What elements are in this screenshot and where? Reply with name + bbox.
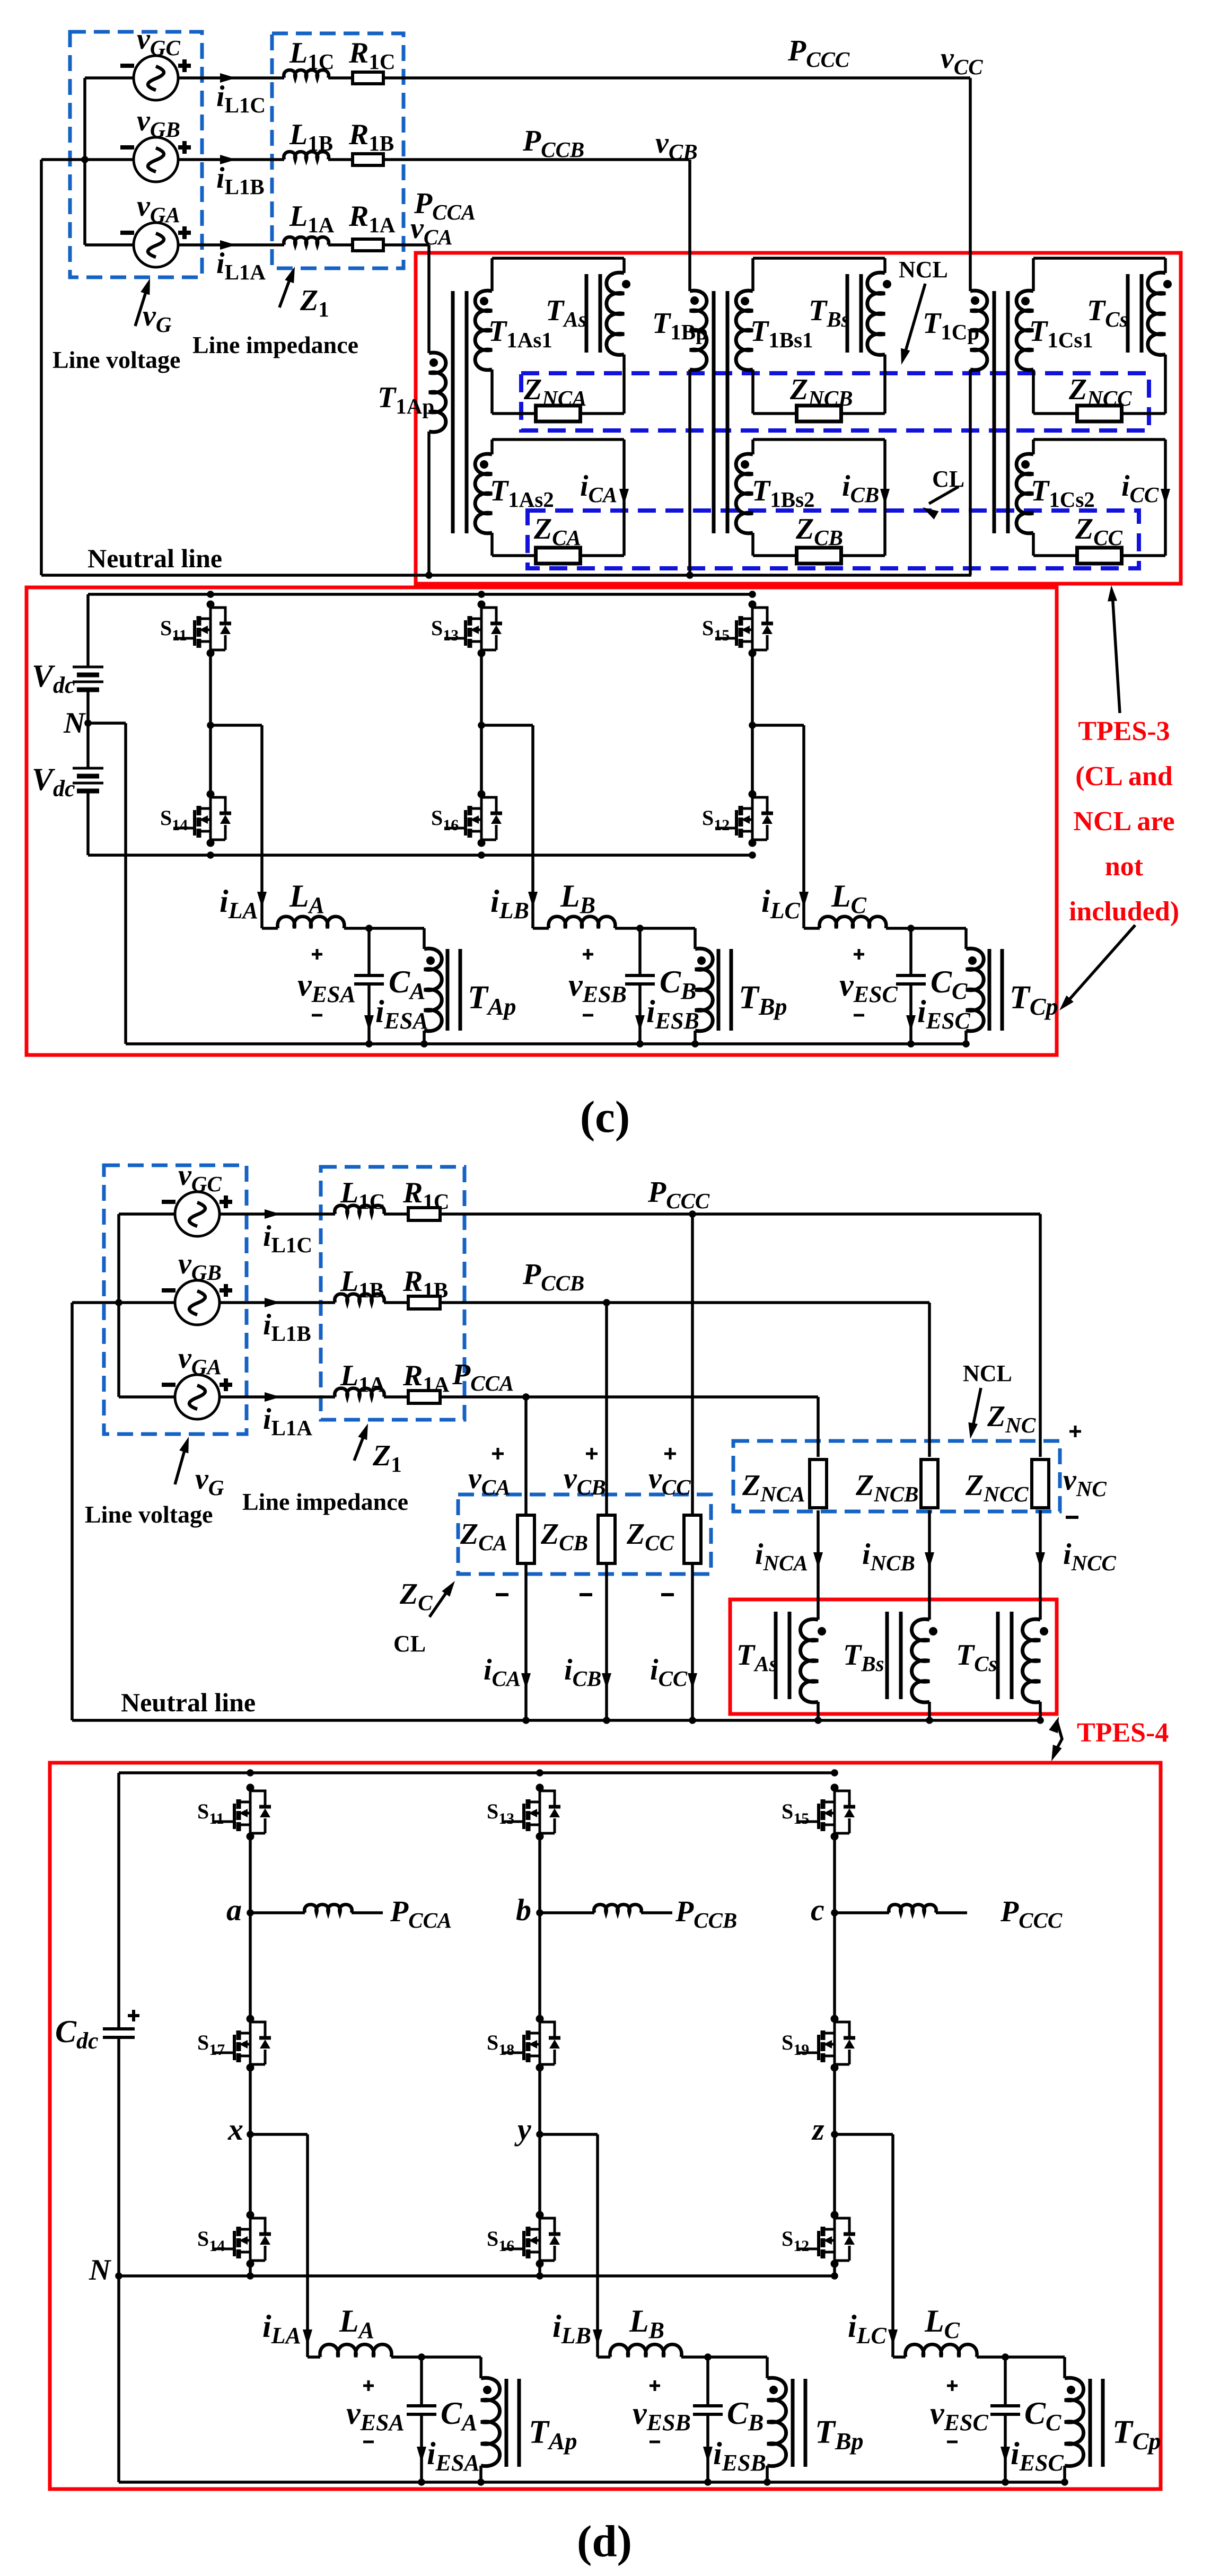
svg-text:x: x: [227, 2112, 243, 2147]
svg-text:(c): (c): [580, 1092, 630, 1142]
svg-text:c: c: [811, 1893, 824, 1927]
svg-text:Line impedance: Line impedance: [192, 331, 358, 358]
svg-text:b: b: [516, 1893, 531, 1927]
svg-text:included): included): [1069, 896, 1179, 927]
svg-text:not: not: [1105, 851, 1144, 882]
svg-text:Line voltage: Line voltage: [52, 346, 180, 373]
svg-text:(CL and: (CL and: [1075, 761, 1173, 792]
svg-text:TPES-4: TPES-4: [1077, 1718, 1169, 1748]
svg-text:Line impedance: Line impedance: [242, 1488, 408, 1515]
svg-text:(d): (d): [577, 2517, 632, 2566]
svg-text:TPES-3: TPES-3: [1078, 716, 1170, 746]
svg-text:z: z: [811, 2112, 824, 2147]
svg-text:N: N: [89, 2254, 112, 2287]
svg-text:Line voltage: Line voltage: [85, 1501, 213, 1528]
svg-text:a: a: [226, 1893, 242, 1927]
svg-text:CL: CL: [393, 1631, 426, 1657]
svg-text:NCL are: NCL are: [1073, 806, 1174, 837]
svg-text:N: N: [63, 707, 86, 740]
svg-text:NCL: NCL: [963, 1360, 1012, 1386]
svg-text:NCL: NCL: [899, 257, 948, 283]
svg-text:Neutral line: Neutral line: [87, 543, 222, 573]
svg-text:Neutral line: Neutral line: [121, 1687, 256, 1717]
svg-text:CL: CL: [932, 466, 964, 492]
